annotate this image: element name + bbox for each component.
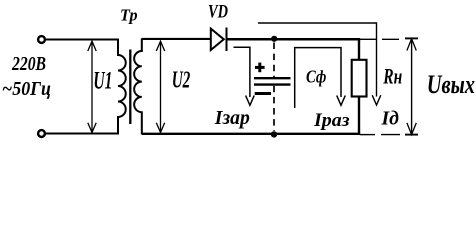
dashed charge current path through capacitor: [273, 43, 275, 132]
transformer core: [129, 50, 131, 125]
terminal bottom-left input: [38, 130, 45, 137]
junction node bottom: [271, 131, 277, 137]
U2 measuring arrow: [156, 41, 164, 132]
Iраз current path bracket: [295, 48, 346, 108]
wire bottom-left (terminal to transformer primary): [45, 132, 119, 134]
svg-text:Сф: Сф: [306, 66, 326, 86]
svg-text:Uвых: Uвых: [427, 70, 475, 99]
polarity minus: [255, 92, 271, 95]
resistor Rн branch: [358, 39, 360, 134]
terminal top-left input: [38, 36, 45, 43]
U1 measuring arrow: [88, 41, 96, 132]
svg-text:Iзар: Iзар: [214, 107, 250, 129]
capacitor Сф plates: [254, 77, 291, 79]
wire diode to resistor (top main): [228, 38, 361, 41]
diode VD: [211, 28, 227, 52]
svg-text:~50Гц: ~50Гц: [2, 78, 51, 100]
Iд diode current path: [258, 23, 381, 105]
Uвых dimension arrow: [405, 38, 418, 134]
dashed extension lines to Uвых dimension: [360, 39, 400, 134]
svg-text:Rн: Rн: [383, 63, 403, 88]
svg-text:Iраз: Iраз: [313, 110, 350, 131]
wire secondary top to diode: [142, 38, 211, 40]
svg-text:220В: 220В: [11, 53, 46, 75]
svg-text:U2: U2: [172, 66, 191, 93]
junction node top: [271, 36, 277, 42]
svg-text:Iд: Iд: [381, 108, 400, 130]
wire bottom main (secondary to resistor): [142, 133, 360, 135]
transformer T primary winding: [118, 39, 126, 135]
svg-text:U1: U1: [93, 68, 112, 95]
polarity plus: [255, 63, 265, 73]
transformer secondary winding: [134, 38, 142, 134]
Iзар current arrow: [234, 47, 255, 105]
svg-text:Тр: Тр: [120, 6, 138, 25]
svg-text:VD: VD: [208, 2, 228, 23]
resistor Rн body: [352, 60, 367, 97]
wire top-left (terminal to transformer primary): [45, 38, 119, 40]
